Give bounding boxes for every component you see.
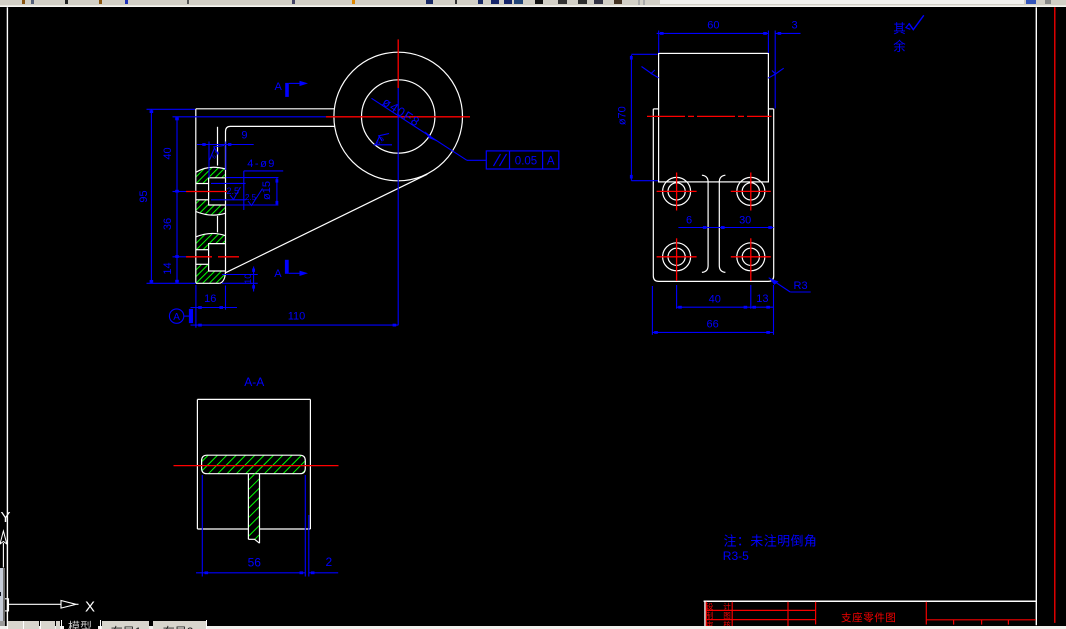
svg-text:A: A bbox=[275, 81, 283, 93]
svg-text:40: 40 bbox=[709, 294, 721, 306]
svg-text:36: 36 bbox=[162, 218, 174, 230]
section mark A bottom bbox=[274, 260, 308, 280]
upper pad bottom arc bbox=[196, 212, 226, 216]
ext D70 top bbox=[631, 53, 657, 55]
svg-text:余: 余 bbox=[893, 39, 906, 54]
hatch zone bottom bbox=[196, 264, 226, 283]
blue dimensions right view bbox=[631, 31, 810, 335]
dim 40/13 line bbox=[677, 306, 774, 308]
dim 66 line bbox=[652, 331, 773, 333]
title block left border (white) bbox=[704, 601, 706, 629]
plate bottom edge bbox=[196, 282, 220, 284]
ext lines upper hole bbox=[211, 182, 246, 184]
hole bottom-right inner bbox=[742, 248, 759, 265]
hole bottom-left outer bbox=[663, 243, 691, 271]
svg-text:4-ø9: 4-ø9 bbox=[247, 158, 276, 170]
svg-text:A-A: A-A bbox=[244, 375, 264, 389]
UCS origin box bbox=[4, 599, 9, 611]
sheet frame right border bbox=[1035, 7, 1037, 625]
dim 60 line bbox=[657, 32, 769, 34]
sheet outer red border right bbox=[1054, 7, 1056, 623]
chain dim line 40/36/14 bbox=[176, 117, 178, 283]
upper counterbore outline bbox=[209, 178, 226, 205]
hole top-right outer bbox=[737, 177, 765, 205]
fillet at plate bottom-right bbox=[220, 271, 226, 283]
central slot right line with hooks bbox=[719, 175, 725, 272]
ext 95/chain bottom bbox=[147, 282, 196, 284]
svg-text:图: 图 bbox=[723, 611, 731, 620]
sheet frame left border bbox=[6, 7, 8, 626]
toolbar strip (top, cut off) bbox=[0, 0, 1066, 5]
ext lower hole center bbox=[173, 256, 187, 258]
svg-text:9: 9 bbox=[241, 129, 247, 141]
svg-text:95: 95 bbox=[138, 190, 150, 202]
dim 10 line bbox=[253, 267, 255, 292]
central slot left line with hooks bbox=[702, 175, 708, 272]
parallelism tolerance frame bbox=[486, 151, 559, 169]
note 其余 with roughness sign bbox=[893, 22, 906, 54]
svg-text:ø15: ø15 bbox=[261, 181, 273, 200]
section outer rectangle bbox=[197, 399, 310, 529]
dim 6/30 line bbox=[678, 227, 773, 229]
leader D40F8 to tolerance frame bbox=[372, 98, 467, 160]
dimension texts left view bbox=[138, 95, 423, 323]
dim 16 line bbox=[191, 307, 238, 309]
R3 leader arrow bbox=[769, 278, 779, 285]
ext upper hole center bbox=[173, 191, 187, 193]
svg-text:6: 6 bbox=[686, 214, 692, 226]
hole top-left outer bbox=[663, 177, 691, 205]
svg-text:支座零件图: 支座零件图 bbox=[841, 611, 897, 624]
hole bottom-left inner bbox=[668, 248, 685, 265]
ext line from boss center down to 110 dim bbox=[397, 88, 399, 325]
blue dimension geometry left view bbox=[147, 88, 487, 328]
boss inner circle (hole D40) bbox=[362, 80, 435, 153]
plate right edge bbox=[225, 132, 227, 272]
dim 16 ext right bbox=[225, 286, 227, 310]
hatch zone lower pad top bbox=[196, 233, 226, 249]
svg-text:计: 计 bbox=[723, 601, 731, 611]
R3 leader bbox=[769, 278, 791, 292]
dim 3 tail bbox=[775, 32, 800, 34]
upper pad top arc bbox=[196, 167, 226, 172]
roughness 2.5 at upper hole bbox=[227, 186, 263, 206]
lower pad top arc bbox=[196, 233, 226, 236]
datum A symbol bbox=[169, 309, 193, 323]
UCS X axis arrow bbox=[9, 603, 62, 605]
leader arrow on D40F8 line bbox=[425, 131, 438, 142]
ext 95 top bbox=[147, 108, 196, 110]
roughness mark inside bore bbox=[374, 134, 393, 147]
hole top-left inner bbox=[668, 183, 685, 200]
svg-text:其: 其 bbox=[893, 22, 906, 36]
svg-text:ø40F8: ø40F8 bbox=[380, 95, 423, 130]
bottom left scrollbar fragment bbox=[0, 568, 3, 621]
svg-text:14: 14 bbox=[162, 262, 174, 274]
rib edge upper segment bbox=[217, 127, 219, 166]
dim 110 line bbox=[191, 324, 399, 326]
UCS Y axis arrow bbox=[0, 531, 7, 544]
hole top-right inner bbox=[742, 183, 759, 200]
title block red grid bbox=[706, 602, 1036, 629]
ext 3 right long bbox=[774, 31, 776, 109]
svg-text:Y: Y bbox=[1, 509, 11, 526]
diagonal rib line tangent to boss bbox=[226, 174, 427, 272]
dim 10 ext lines bbox=[222, 274, 258, 276]
ext D70 bottom bbox=[631, 180, 658, 182]
ext line boss center to chain dim bbox=[173, 116, 326, 118]
svg-text:2: 2 bbox=[326, 555, 333, 569]
arm top line bbox=[196, 108, 335, 110]
bottom sliver of status area bbox=[0, 626, 1066, 629]
ext lines upper counterbore bbox=[226, 177, 279, 179]
roughness mark boss left face bbox=[642, 67, 659, 78]
section centerline red bbox=[174, 465, 339, 467]
upper through hole lines bbox=[196, 183, 209, 185]
svg-text:制: 制 bbox=[706, 610, 714, 620]
svg-text:ø70: ø70 bbox=[616, 106, 628, 125]
svg-text:10: 10 bbox=[243, 274, 253, 284]
svg-text:66: 66 bbox=[706, 319, 718, 331]
dim D70 line bbox=[630, 55, 632, 181]
svg-text:A: A bbox=[274, 268, 282, 280]
title block top border (white) bbox=[704, 600, 1037, 602]
4-D9 leader underline bbox=[244, 170, 283, 172]
section mark A top bbox=[275, 81, 309, 97]
plate left edge bbox=[195, 109, 197, 283]
plate outline with rounded bottom corners bbox=[653, 109, 773, 282]
boss outer circle bbox=[334, 52, 463, 181]
hatched T stem bbox=[248, 474, 259, 544]
hatch zone upper pad top bbox=[196, 167, 226, 183]
roughness mark boss right face bbox=[768, 68, 784, 78]
red centerlines left view bbox=[186, 39, 470, 256]
svg-text:13: 13 bbox=[756, 293, 768, 305]
svg-text:R3: R3 bbox=[794, 280, 808, 292]
svg-text:60: 60 bbox=[707, 19, 719, 31]
roughness mark under dim 9 bbox=[210, 146, 225, 161]
ext lines 60 bbox=[658, 31, 660, 54]
dim 9 line bbox=[197, 144, 254, 146]
lower through hole lines bbox=[196, 249, 209, 251]
terminator squares right view bbox=[630, 32, 781, 334]
svg-text:110: 110 bbox=[288, 311, 306, 323]
title block row labels bbox=[706, 601, 731, 629]
toolbar icon specks bbox=[22, 0, 25, 4]
svg-text:A: A bbox=[547, 156, 555, 168]
svg-text:0.05: 0.05 bbox=[515, 156, 537, 168]
svg-text:2.5: 2.5 bbox=[227, 186, 240, 196]
boss rectangle bbox=[659, 53, 769, 182]
svg-text:16: 16 bbox=[204, 293, 216, 305]
dim 9 ext lines bbox=[208, 142, 210, 178]
lower counterbore outline bbox=[209, 244, 226, 271]
4-D9 leader vertical bbox=[243, 171, 245, 210]
svg-text:A: A bbox=[173, 312, 180, 323]
dimension terminator squares left view bbox=[150, 110, 438, 326]
hole bottom-right outer bbox=[737, 243, 765, 271]
red centerlines right view bbox=[647, 116, 772, 281]
hatch zone upper pad bottom bbox=[196, 200, 226, 215]
shared ext left for 16/110 bbox=[195, 285, 197, 328]
svg-text:注：未注明倒角: 注：未注明倒角 bbox=[724, 534, 818, 549]
dims 56 and 2 bbox=[196, 475, 338, 577]
dim D15 line bbox=[276, 178, 278, 205]
rib edge middle segment bbox=[217, 216, 219, 233]
svg-text:R3-5: R3-5 bbox=[723, 549, 749, 563]
svg-text:40: 40 bbox=[162, 147, 174, 159]
svg-text:3: 3 bbox=[791, 19, 797, 31]
dimension texts right view bbox=[616, 19, 807, 330]
svg-text:设: 设 bbox=[706, 601, 714, 611]
arm bottom line with fillet bbox=[226, 126, 335, 131]
svg-text:30: 30 bbox=[739, 214, 751, 226]
ext lines bottom dims bbox=[676, 285, 678, 309]
toolbar combo field bbox=[660, 0, 1024, 4]
model/layout tab fragments bbox=[7, 621, 23, 629]
plate top edge stubs bbox=[653, 108, 658, 110]
svg-text:X: X bbox=[85, 599, 95, 616]
dim 95 line bbox=[150, 110, 152, 284]
svg-text:56: 56 bbox=[248, 555, 262, 569]
hatched T flange bbox=[202, 455, 306, 474]
